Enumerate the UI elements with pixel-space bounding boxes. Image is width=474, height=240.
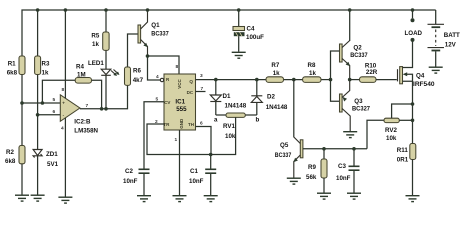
svg-text:1N4148: 1N4148: [266, 104, 288, 111]
svg-text:LM358N: LM358N: [74, 128, 98, 135]
svg-text:R5: R5: [91, 33, 99, 40]
IC1 555 timer: [155, 64, 204, 143]
wire 555 output pin3 main line: [196, 79, 267, 81]
wire Q5 base node: [324, 148, 367, 150]
capacitor C2 10nF: [123, 168, 150, 195]
ground under R9: [317, 193, 331, 200]
resistor R9 56k: [306, 149, 327, 193]
svg-text:Q: Q: [189, 79, 193, 84]
resistor R8 1k: [303, 62, 321, 82]
node R4 to +input: [41, 101, 45, 105]
svg-text:LED1: LED1: [88, 60, 104, 67]
svg-text:R2: R2: [6, 149, 14, 156]
transistor Q1 BC337: [128, 10, 170, 56]
node timing junction: [209, 153, 213, 157]
potentiometer RV1 10k: [211, 113, 260, 155]
svg-text:6k8: 6k8: [5, 158, 16, 165]
node R4 to output: [100, 107, 104, 111]
svg-text:1k: 1k: [309, 70, 316, 77]
wire 555 TR pin2 to timing node: [147, 124, 211, 155]
ground under C3: [347, 193, 361, 200]
svg-text:100uF: 100uF: [246, 34, 264, 41]
transistor Q5 BC337 current limiter: [275, 80, 324, 178]
ground under C4: [232, 52, 246, 59]
svg-text:10nF: 10nF: [189, 178, 204, 185]
ground under C2: [137, 195, 151, 202]
svg-text:0R1: 0R1: [397, 157, 409, 164]
svg-text:1N4148: 1N4148: [225, 103, 247, 110]
svg-text:1M: 1M: [77, 72, 86, 79]
zener diode ZD1 5V1: [33, 115, 58, 195]
svg-text:555: 555: [176, 106, 187, 113]
svg-text:C1: C1: [190, 168, 198, 175]
wire 555 DC pin7 stub: [196, 91, 206, 93]
wire 555 GND pin1: [179, 130, 181, 195]
svg-text:1k: 1k: [92, 41, 99, 48]
svg-text:R8: R8: [308, 62, 316, 69]
svg-text:5V1: 5V1: [47, 161, 59, 168]
svg-text:IRF540: IRF540: [413, 81, 435, 88]
ground under C1: [204, 195, 218, 202]
node rail Q2 collector: [348, 8, 352, 12]
svg-text:R11: R11: [397, 147, 409, 154]
variable resistor RV2 10k: [367, 104, 413, 149]
wire op-amp -input (pin 6): [38, 114, 61, 116]
svg-text:8: 8: [62, 87, 65, 93]
resistor R6 4k7: [125, 42, 144, 85]
svg-text:4: 4: [61, 126, 64, 132]
node rail Q1 collector: [146, 8, 150, 12]
ground under battery: [429, 67, 443, 74]
wire rail to LOAD: [412, 10, 414, 18]
svg-text:Q4: Q4: [416, 73, 425, 80]
svg-text:CV: CV: [164, 100, 170, 105]
transistor Q3 BC327 driver: [340, 80, 371, 131]
ground under IC1: [173, 195, 187, 202]
svg-text:1k: 1k: [42, 70, 49, 77]
node Q4 source / RV2 wiper: [411, 102, 415, 106]
wire Q1 emitter to 555 reset pin4: [148, 56, 161, 80]
svg-text:R3: R3: [42, 61, 50, 68]
wire top VCC rail: [22, 10, 436, 56]
node divider to +input: [20, 101, 24, 105]
svg-text:BC337: BC337: [350, 52, 368, 59]
resistor R5 1k: [91, 10, 109, 69]
svg-text:TR: TR: [163, 122, 170, 127]
svg-text:56k: 56k: [306, 174, 317, 181]
node D2 top: [255, 78, 259, 82]
diode D1 1N4148: [210, 80, 246, 115]
node Q1 emitter junction: [146, 54, 150, 58]
svg-text:6: 6: [200, 120, 203, 126]
svg-text:BC337: BC337: [151, 31, 169, 38]
capacitor C3 10nF: [336, 149, 360, 193]
diode D2 1N4148: [251, 80, 288, 115]
capacitor C4 100uF: [233, 10, 264, 52]
svg-text:R6: R6: [133, 68, 141, 75]
resistor R7 1k: [266, 62, 284, 82]
ground op-amp pin4: [58, 197, 72, 204]
node R3 ZD1 to -input: [36, 113, 40, 117]
wire op-amp output (pin 7): [80, 85, 128, 108]
svg-text:a: a: [214, 117, 218, 124]
resistor R10 22R: [350, 63, 397, 83]
svg-text:BC327: BC327: [352, 106, 371, 113]
ground under Q3: [343, 131, 357, 138]
svg-text:GND: GND: [179, 118, 184, 129]
svg-text:C2: C2: [125, 168, 133, 175]
svg-text:10nF: 10nF: [123, 178, 138, 185]
node C3 top: [352, 147, 356, 151]
capacitor C1 10nF: [189, 155, 216, 196]
transistor Q2 BC337 driver: [331, 10, 369, 101]
svg-text:3: 3: [200, 73, 203, 79]
node R9 top: [322, 147, 326, 151]
op-amp U1 IC2:B LM358N: [53, 10, 99, 197]
svg-text:1: 1: [175, 137, 178, 143]
svg-text:IC1: IC1: [175, 98, 185, 105]
svg-text:RV2: RV2: [385, 127, 397, 134]
svg-text:IC2:B: IC2:B: [74, 119, 91, 126]
node rail op-amp V+: [64, 8, 68, 12]
svg-text:1k: 1k: [273, 70, 280, 77]
ground under R11: [406, 195, 420, 202]
svg-text:VCC: VCC: [177, 79, 182, 89]
svg-text:5: 5: [53, 97, 56, 103]
svg-text:8: 8: [176, 64, 179, 70]
svg-text:10nF: 10nF: [336, 175, 351, 182]
wire 555 TH pin6 to timing node: [196, 127, 212, 155]
svg-text:D2: D2: [267, 94, 275, 101]
svg-text:4: 4: [156, 74, 159, 80]
svg-text:R1: R1: [8, 61, 16, 68]
svg-text:D1: D1: [223, 93, 231, 100]
node D1 top: [214, 78, 218, 82]
node Q5 collector junction on main line: [292, 78, 296, 82]
svg-text:+: +: [62, 101, 65, 106]
svg-text:7: 7: [86, 103, 89, 109]
node LED to output: [104, 107, 108, 111]
resistor R11 0R1: [397, 104, 416, 195]
resistor R1: [7, 56, 25, 103]
svg-text:LOAD: LOAD: [405, 30, 423, 37]
svg-text:10k: 10k: [225, 133, 236, 140]
svg-text:Q5: Q5: [280, 142, 289, 149]
svg-text:6: 6: [53, 109, 56, 115]
terminal LOAD top: [411, 18, 415, 22]
ground under Q5: [287, 178, 301, 185]
svg-text:BATT: BATT: [444, 32, 460, 39]
node C4 on rail: [237, 8, 241, 12]
svg-text:BC337: BC337: [275, 152, 292, 159]
node rail R3: [36, 8, 40, 12]
terminal LOAD bottom: [411, 38, 415, 42]
svg-text:b: b: [256, 117, 260, 124]
node driver bases: [329, 78, 333, 82]
svg-text:22R: 22R: [366, 69, 378, 76]
wire 555 CV pin5 to C2: [144, 102, 164, 169]
svg-text:R7: R7: [271, 62, 279, 69]
node rail LOAD: [411, 8, 415, 12]
svg-text:Q2: Q2: [353, 45, 362, 52]
svg-text:C3: C3: [338, 163, 346, 170]
resistor R2: [5, 103, 25, 195]
svg-text:6k8: 6k8: [7, 70, 18, 77]
node driver emitters: [348, 78, 352, 82]
node RV2 right: [411, 119, 415, 123]
LED1: [88, 60, 120, 109]
svg-text:4k7: 4k7: [133, 77, 144, 84]
svg-text:R9: R9: [308, 164, 316, 171]
resistor R4 1M feedback: [42, 64, 101, 109]
svg-text:R4: R4: [76, 64, 84, 71]
svg-text:DC: DC: [187, 90, 194, 95]
svg-text:Q1: Q1: [151, 22, 160, 29]
ground under R2: [15, 195, 29, 202]
MOSFET Q4 IRF540: [398, 40, 436, 104]
ground under ZD1: [31, 195, 45, 202]
svg-text:10k: 10k: [386, 135, 397, 142]
wire op-amp +input (pin 5): [22, 102, 60, 104]
svg-text:Q3: Q3: [354, 98, 363, 105]
wire Q1 emitter to 555 VCC pin8: [148, 56, 180, 74]
svg-text:RV1: RV1: [223, 123, 235, 130]
resistor R3: [35, 10, 50, 115]
svg-text:ZD1: ZD1: [46, 151, 58, 158]
svg-text:12V: 12V: [445, 42, 457, 49]
svg-text:C4: C4: [247, 26, 255, 33]
node rail R5: [104, 8, 108, 12]
battery BATT 12V: [428, 10, 461, 67]
svg-text:TH: TH: [188, 122, 194, 127]
